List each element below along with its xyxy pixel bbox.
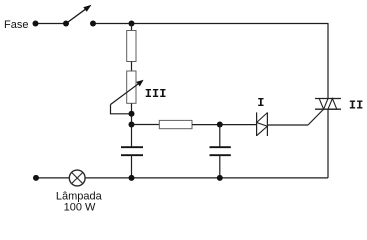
svg-text:II: II bbox=[349, 99, 363, 113]
svg-text:I: I bbox=[257, 96, 264, 110]
svg-text:Fase: Fase bbox=[4, 19, 28, 31]
svg-text:100 W: 100 W bbox=[64, 201, 96, 213]
svg-text:III: III bbox=[145, 87, 167, 101]
